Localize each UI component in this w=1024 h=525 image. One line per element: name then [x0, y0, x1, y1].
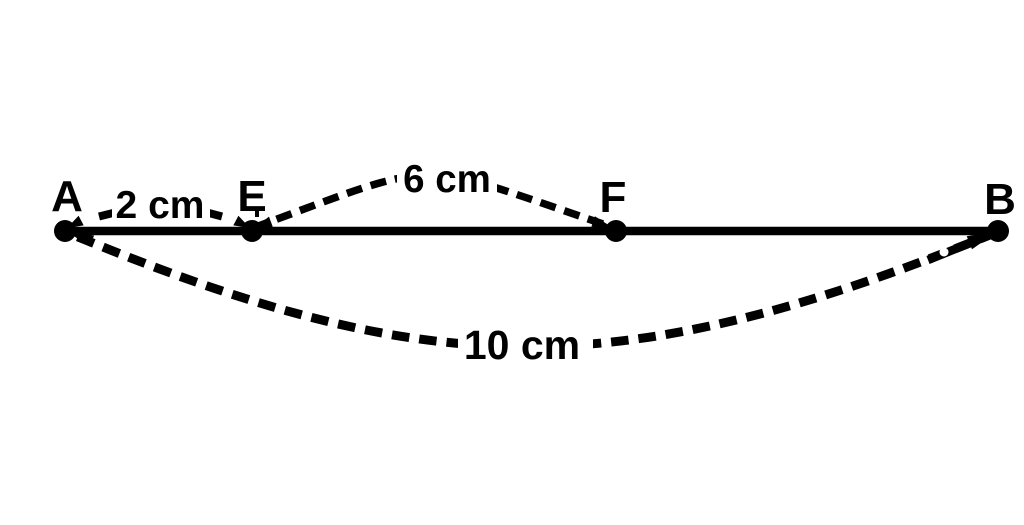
white notch in B approach stroke — [940, 248, 949, 257]
point A — [54, 220, 76, 242]
arrowhead at A (10 cm arc) — [65, 230, 94, 247]
point E — [241, 220, 263, 242]
svg-text:10 cm: 10 cm — [464, 322, 580, 368]
arrowhead at B (10 cm arc) — [928, 235, 990, 260]
point B — [987, 220, 1009, 242]
tick under E — [255, 207, 259, 217]
white gap for 6 cm label — [397, 160, 497, 198]
arrowhead at F (6 cm arc) — [591, 216, 614, 228]
arrowhead at E (2 cm arc) — [233, 216, 250, 228]
point F — [605, 220, 627, 242]
svg-text:A: A — [51, 172, 83, 221]
arrowhead at A (2 cm arc) — [67, 216, 84, 228]
segment AB main line — [65, 227, 998, 236]
svg-text:E: E — [237, 172, 266, 221]
white gap for 10 cm label — [458, 320, 593, 366]
arc EF (6 cm) dashed — [253, 175, 615, 228]
arc AB (10 cm) dashed — [66, 232, 997, 347]
svg-text:6 cm: 6 cm — [403, 158, 491, 201]
svg-text:B: B — [984, 175, 1016, 224]
white gap for 2 cm label — [112, 186, 210, 222]
arrowhead at E (6 cm arc) — [254, 217, 273, 228]
svg-text:F: F — [600, 173, 627, 222]
svg-text:2 cm: 2 cm — [116, 184, 205, 227]
arc AE (2 cm) dashed — [99, 213, 115, 217]
